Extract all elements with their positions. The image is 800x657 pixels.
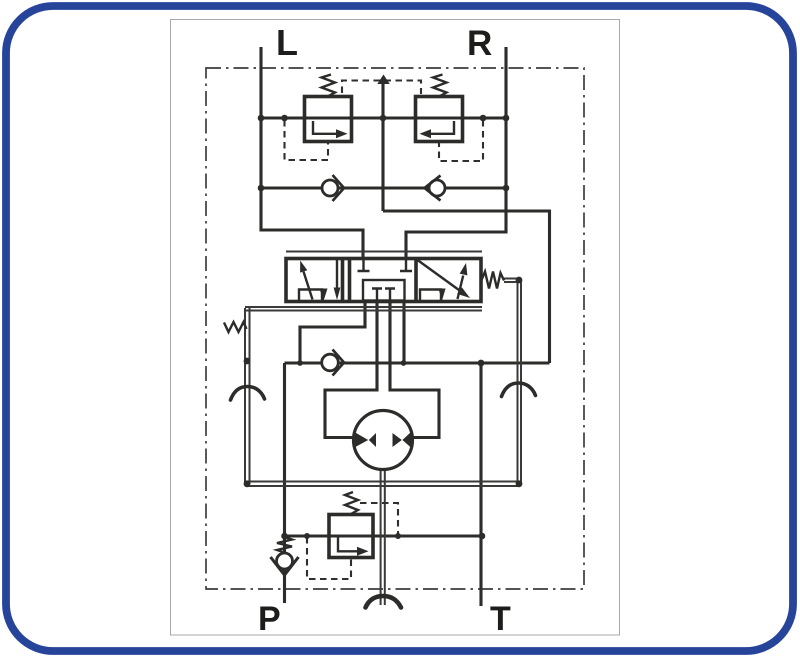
inlet relief valve bottom: spring — [345, 492, 358, 514]
main valve center cell: right stub to motor — [385, 289, 395, 302]
centering spring left (w) — [224, 322, 247, 332]
inlet relief valve bottom: body — [329, 515, 373, 558]
wire valve upper parallel line — [286, 251, 482, 253]
wire motor loop left — [325, 301, 377, 438]
wire valve port A drop — [300, 301, 365, 363]
shock relief valve left: flow arrow — [313, 121, 337, 134]
junction P inlet node — [281, 533, 288, 540]
main valve center cell: left blocked port — [358, 259, 370, 271]
junction port A branch — [297, 360, 303, 366]
pilot dashed left shock valve — [285, 120, 329, 160]
junction center pilot on shock line — [380, 115, 387, 122]
diagram panel border — [171, 20, 620, 636]
wire bottom P-T horizontal — [285, 534, 483, 537]
wire bottom branch line — [285, 361, 550, 364]
shock relief valve right: flow arrow — [430, 121, 454, 134]
junction left pilot branch — [281, 115, 288, 122]
junction T bottom node — [479, 533, 486, 540]
pilot arrow up — [377, 75, 389, 85]
check valve CV3 inlet — [322, 354, 339, 371]
wire P line lower — [283, 536, 286, 603]
dash-dot enclosure boundary — [206, 68, 584, 589]
pilot dashed relief sense — [360, 503, 398, 535]
junction L-check line — [258, 185, 265, 192]
main valve left cell: land — [299, 290, 322, 302]
pilot dashed relief drain — [307, 537, 351, 579]
wire T line — [479, 363, 482, 606]
junction left feedback node — [244, 358, 251, 365]
metering motor left triangle pair — [354, 432, 369, 449]
check valve CV2 — [429, 180, 445, 196]
junction R-check line — [503, 185, 510, 192]
svg-text:T: T — [490, 600, 511, 638]
feedback arc left — [231, 387, 265, 401]
junction T branch on bottom line — [478, 360, 485, 367]
junction right pilot branch — [480, 115, 487, 122]
svg-text:P: P — [258, 600, 281, 638]
junction L-shock line — [258, 115, 265, 122]
metering motor circle — [354, 411, 413, 470]
junction R-shock line — [503, 115, 510, 122]
svg-text:L: L — [276, 22, 298, 63]
pilot dashed right shock valve — [439, 120, 483, 161]
junction relief sense node — [395, 533, 401, 539]
shock relief valve left: body — [305, 97, 352, 142]
wire valve lower parallel double line — [245, 307, 482, 311]
wire feedback rail double line — [247, 482, 519, 487]
main control valve: dividers — [343, 259, 417, 302]
main valve right cell: land — [420, 290, 441, 302]
junction spring feedback node — [516, 277, 523, 284]
wire right feedback double vertical — [518, 280, 522, 482]
wire to right side drop — [383, 211, 550, 363]
junction rail left end — [244, 480, 251, 487]
main valve left cell: up arrow — [304, 272, 313, 300]
junction relief drain node — [304, 533, 310, 539]
pilot dashed between shock valves — [342, 81, 421, 95]
inlet check valve: ball — [277, 553, 293, 569]
main valve right return spring — [482, 272, 505, 289]
main valve left cell: down arrow — [336, 259, 338, 288]
wire L port vertical and bend into valve — [261, 47, 363, 259]
main valve right cell: crossed path down — [418, 260, 462, 292]
svg-text:R: R — [467, 24, 492, 63]
main valve center cell: left stub to motor — [372, 289, 382, 302]
wire right feedback double horizontal — [504, 279, 519, 283]
steering wheel symbol — [366, 596, 402, 608]
metering motor right triangle pair — [393, 433, 402, 447]
wire anticavitation check line — [261, 186, 506, 189]
inlet relief valve bottom: flow arrow — [338, 537, 358, 551]
wire valve port B drop — [402, 301, 405, 363]
feedback arc right — [502, 383, 536, 397]
shock relief valve left: spring — [322, 75, 336, 97]
junction rail right end — [516, 480, 523, 487]
wire steering column double line — [381, 470, 385, 605]
wire pilot center vertical — [381, 84, 384, 211]
main valve center cell: right blocked port — [400, 259, 412, 271]
inlet check valve: seat — [271, 557, 299, 575]
main valve right cell: crossed path up arrow — [458, 276, 464, 300]
main valve center cell: inner box — [363, 280, 405, 301]
junction port B branch — [401, 360, 407, 366]
main control valve: body — [286, 259, 481, 302]
inlet check valve: spring — [277, 537, 292, 553]
wire left feedback double vertical — [245, 308, 250, 484]
wire motor loop right — [390, 301, 439, 438]
shock relief valve right: spring — [433, 75, 447, 97]
shock relief valve right: body — [416, 97, 463, 142]
wire left drop to P junction — [283, 363, 286, 536]
wire shock-valve line — [261, 116, 506, 119]
check valve CV1 — [322, 180, 338, 196]
wire R port vertical and bend into valve — [406, 47, 506, 259]
